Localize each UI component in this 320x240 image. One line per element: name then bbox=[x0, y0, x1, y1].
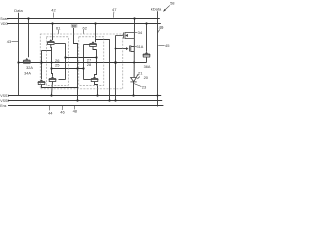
wire long storage-node row bbox=[19, 62, 147, 64]
wire 27 output jog bbox=[93, 47, 97, 50]
svg-text:31A: 31A bbox=[137, 45, 144, 49]
svg-text:28: 28 bbox=[87, 62, 92, 67]
svg-text:34: 34 bbox=[138, 30, 143, 35]
svg-text:Ens: Ens bbox=[0, 104, 6, 108]
VSS0 rail bbox=[8, 100, 162, 102]
junction VSS1 to 25 tail bbox=[50, 94, 52, 96]
wire left input column bbox=[65, 44, 67, 80]
junction scan rail to 32A gate tap bbox=[27, 17, 29, 19]
leader 44 bbox=[48, 106, 50, 111]
svg-text:45: 45 bbox=[165, 43, 170, 48]
svg-text:21: 21 bbox=[138, 71, 143, 76]
svg-text:46: 46 bbox=[60, 110, 65, 115]
wire right tap branch east to VSS0 bbox=[96, 40, 110, 101]
junction VSS1 to OLED cathode bbox=[132, 94, 134, 96]
svg-text:44: 44 bbox=[48, 110, 53, 115]
dashed inner box 61 bbox=[46, 37, 68, 86]
wire 25 tail to VSS1 bbox=[52, 82, 53, 96]
Ens rail bbox=[8, 105, 163, 107]
junction data line to 32A bbox=[17, 61, 19, 63]
wire scan to OLED column bbox=[133, 19, 135, 78]
svg-text:58: 58 bbox=[170, 1, 175, 6]
wire VDD to 36A bbox=[146, 24, 148, 52]
wire latch node exit west bbox=[42, 50, 52, 52]
leader lines for labels bbox=[12, 5, 170, 110]
VSS1 rail bbox=[8, 95, 161, 97]
dashed inner box 62 bbox=[79, 37, 104, 86]
svg-text:25: 25 bbox=[55, 63, 60, 68]
junction 34A wire to node-60 column bbox=[77, 87, 79, 89]
OLED 21 bbox=[130, 75, 139, 82]
svg-text:32A: 32A bbox=[26, 66, 33, 70]
svg-text:48: 48 bbox=[73, 108, 78, 113]
transistor 25 bbox=[49, 76, 57, 81]
junction W2 to right input column bbox=[82, 67, 84, 69]
svg-text:VDD: VDD bbox=[1, 22, 9, 26]
wire cross-couple W2 bbox=[52, 68, 84, 70]
wire left gate lead upper bbox=[55, 43, 66, 45]
svg-text:61: 61 bbox=[56, 25, 61, 30]
transistor 35 bbox=[47, 39, 55, 44]
wire 34A source path to VSS0 bbox=[42, 85, 78, 88]
junction VDD to 35 bbox=[51, 22, 53, 24]
wire VDD tap to 35 bbox=[52, 24, 54, 41]
scan rail 42 bbox=[7, 18, 160, 20]
wire 35 output to 25 with jogs bbox=[51, 45, 53, 77]
leader 61 bbox=[58, 30, 60, 34]
wire right output column bbox=[95, 50, 97, 77]
svg-text:VSS1: VSS1 bbox=[0, 94, 9, 98]
svg-text:VSS0: VSS0 bbox=[0, 99, 9, 103]
wire OLED cathode to VSS1 bbox=[133, 82, 135, 96]
svg-text:49: 49 bbox=[159, 25, 164, 30]
wire VDD tap to 27 bbox=[95, 24, 97, 43]
junction node row to right output column bbox=[96, 62, 98, 64]
leader 42 bbox=[53, 13, 55, 18]
junction VSS0 to right branch bbox=[108, 99, 110, 101]
wire 28 tail to VSS1 bbox=[95, 82, 98, 96]
wire cross-couple W1 bbox=[66, 57, 97, 59]
leader 23 bbox=[134, 84, 141, 87]
junction VDD to 36A bbox=[145, 22, 147, 24]
junction VSS1 to 28 tail bbox=[96, 94, 98, 96]
transistor 28 bbox=[91, 76, 99, 81]
label 60 halo bbox=[71, 24, 77, 28]
transistor 27 bbox=[89, 41, 97, 46]
junction VDD to 27 bbox=[94, 22, 96, 24]
leader 47 bbox=[113, 12, 115, 18]
junction VSS1 to kData column bbox=[157, 95, 159, 97]
wire branch down to 34A bbox=[41, 51, 43, 80]
wire scan tap down to 32A bbox=[28, 19, 30, 58]
svg-text:20: 20 bbox=[144, 75, 149, 80]
junction node row to left output column bbox=[51, 62, 53, 64]
svg-text:kData: kData bbox=[151, 7, 162, 12]
leader 49 bbox=[158, 30, 160, 33]
junction node row to 31A column bbox=[114, 61, 117, 64]
junction node row to 34A branch bbox=[40, 61, 42, 63]
svg-text:42: 42 bbox=[51, 8, 56, 13]
svg-text:62: 62 bbox=[82, 25, 87, 30]
wire 31A drain lead bbox=[116, 48, 127, 50]
svg-text:60: 60 bbox=[72, 23, 77, 28]
transistor 36A bbox=[143, 52, 151, 57]
dashed outer box 60 bbox=[40, 34, 123, 89]
leader 31A bbox=[135, 46, 137, 48]
wire kData column bbox=[157, 11, 159, 106]
leader 62 bbox=[83, 30, 85, 34]
wire 36A tail bbox=[146, 57, 148, 63]
junction VSS0 to node-60 column bbox=[76, 99, 78, 101]
leader 43 bbox=[12, 41, 19, 43]
leader 34 bbox=[135, 32, 138, 34]
VDD rail bbox=[7, 23, 161, 25]
svg-text:Data: Data bbox=[14, 8, 23, 13]
svg-text:23: 23 bbox=[142, 85, 147, 90]
svg-text:47: 47 bbox=[112, 7, 117, 12]
svg-text:Scan: Scan bbox=[0, 17, 8, 21]
wire data line vertical bbox=[18, 13, 20, 96]
wire right input column bbox=[83, 45, 85, 80]
wire left gate lead lower bbox=[59, 79, 66, 81]
wire right gate lead lower bbox=[84, 79, 91, 81]
transistor 34A bbox=[38, 79, 46, 84]
leader 21 bbox=[137, 74, 139, 76]
leader 58 arrow bbox=[164, 5, 170, 11]
leader 46 bbox=[61, 106, 63, 110]
leader 48 bbox=[73, 106, 75, 110]
junction W2 to node-60 column bbox=[76, 67, 78, 69]
junction scan rail to OLED column bbox=[133, 17, 135, 19]
transistor 32A bbox=[23, 58, 31, 63]
wire 31A legs to OLED column bbox=[131, 46, 135, 48]
svg-text:43: 43 bbox=[7, 39, 12, 44]
junction W1 to right output column bbox=[95, 56, 97, 58]
wire right gate lead upper bbox=[84, 44, 90, 46]
junction node row to OLED column bbox=[133, 62, 135, 64]
svg-text:34A: 34A bbox=[24, 72, 31, 76]
transistor 34 (rotated, upper right) bbox=[116, 32, 135, 39]
wire column to VSS0 bbox=[115, 36, 117, 101]
wire node-60 column with jog bbox=[74, 28, 78, 101]
transistor 31A (rotated, lower right) bbox=[126, 45, 131, 52]
junction W2 to left output column bbox=[50, 67, 52, 69]
junction 31A drain lead to column bbox=[115, 48, 117, 50]
junction W1 to left input column bbox=[64, 56, 66, 58]
junction VSS0 to 31A column bbox=[114, 99, 116, 101]
leader 45 bbox=[158, 45, 164, 47]
svg-text:36A: 36A bbox=[144, 65, 151, 69]
